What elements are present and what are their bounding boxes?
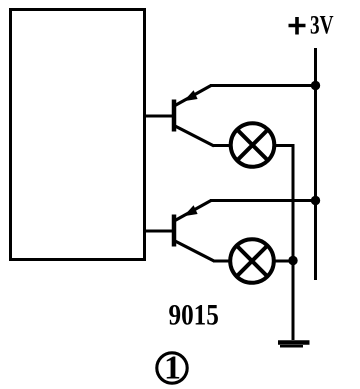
wire: Q2 base from IC block bbox=[145, 230, 173, 233]
svg-text:1: 1 bbox=[164, 350, 181, 387]
ground bbox=[278, 343, 310, 347]
wire: Q1 base from IC block bbox=[145, 115, 173, 118]
label +3V bbox=[289, 11, 334, 39]
svg-text:3V: 3V bbox=[310, 11, 334, 39]
wire: Q1 emitter to +3V rail bbox=[210, 84, 314, 87]
wire: Q2 collector to lamp L2 bbox=[213, 260, 231, 263]
figure number 1 (circled) bbox=[157, 350, 187, 387]
label 9015 bbox=[169, 297, 219, 331]
node: L2 junction on ground bus bbox=[288, 256, 297, 265]
transistor Q1 (PNP 9015) bbox=[174, 86, 214, 147]
IC block U1 bbox=[11, 10, 145, 260]
+3V power rail bbox=[314, 48, 317, 280]
lamp L2 bbox=[230, 239, 274, 283]
wire: lamp L1 to ground bus bbox=[274, 146, 293, 341]
node: Q1 emitter junction on rail bbox=[311, 81, 320, 90]
wire: Q1 collector to lamp L1 bbox=[213, 144, 231, 147]
wire: Q2 emitter to +3V rail bbox=[210, 199, 314, 202]
wire: lamp L2 to ground bus bbox=[274, 260, 294, 263]
svg-text:9015: 9015 bbox=[169, 297, 219, 331]
transistor Q2 (PNP 9015) bbox=[174, 201, 214, 262]
node: Q2 emitter junction on rail bbox=[311, 196, 320, 205]
lamp L1 bbox=[231, 123, 275, 167]
